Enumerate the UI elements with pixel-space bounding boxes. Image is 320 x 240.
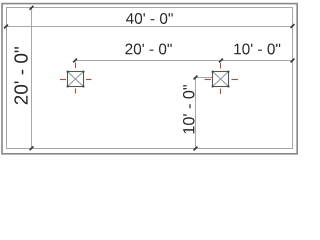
- dim text 10ft row2: [234, 44, 280, 55]
- dim text 20ft row2: [125, 44, 171, 55]
- column K1 square: [68, 72, 84, 87]
- dimension line 20ft/10ft row: [75, 60, 293, 62]
- column K1 corner dots: [67, 71, 85, 88]
- column K1 X brace: [68, 72, 83, 86]
- tick left 20ft top: [30, 6, 34, 10]
- column K1 center mark right: [86, 79, 92, 81]
- floor slab outline: [7, 8, 293, 149]
- column K1 center mark top: [75, 63, 77, 69]
- column K1 center mark left: [60, 79, 66, 81]
- column K1 center mark bottom: [75, 89, 77, 94]
- column K2 center mark right: [232, 79, 239, 81]
- tick row2 at column K1: [73, 59, 77, 63]
- tick 40ft left: [4, 25, 8, 29]
- dimension line 40ft: [6, 26, 293, 28]
- dim text vert 10ft (rotated): [183, 85, 195, 133]
- witness line to column K2: [195, 77, 213, 79]
- column K2 corner dots: [212, 71, 230, 88]
- tick row2 right end: [291, 59, 295, 63]
- dim text 40ft: [126, 13, 173, 24]
- dimension line left 20ft: [31, 7, 33, 149]
- tick vert 10ft top: [194, 76, 198, 80]
- tick row2 at column K2: [219, 59, 223, 63]
- column K2 X brace: [213, 72, 228, 86]
- column K2 center mark bottom: [220, 89, 222, 95]
- column K2 center mark left: [205, 79, 212, 81]
- border frame: [2, 4, 297, 154]
- tick vert 10ft bottom: [194, 147, 198, 151]
- dimension line vertical 10ft: [195, 78, 197, 150]
- tick left 20ft bottom: [30, 146, 34, 150]
- dim text left 20ft (rotated): [14, 47, 27, 104]
- tick 40ft right: [291, 24, 295, 28]
- column K2 square: [213, 72, 229, 87]
- column K2 center mark top: [220, 63, 222, 69]
